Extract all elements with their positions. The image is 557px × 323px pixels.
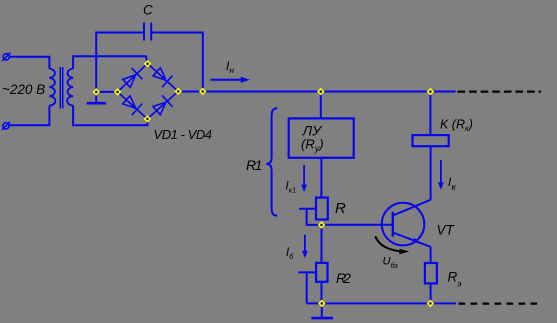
- wire R2 to bottom rail: [321, 282, 323, 304]
- wire left vertical to capacitor line: [96, 33, 144, 92]
- arrow Ube: [375, 236, 409, 254]
- node bridge bottom: [144, 115, 152, 123]
- op-amp block LU (Ry): [289, 118, 354, 157]
- resistor R tap down wire: [307, 209, 321, 225]
- wire emitter to Re: [430, 247, 432, 263]
- node rail at capacitor branch: [199, 88, 207, 96]
- arrow In: [210, 77, 250, 83]
- svg-text:VT: VT: [437, 223, 456, 238]
- svg-text:Iк1: Iк1: [286, 181, 297, 195]
- transformer T1 secondary winding: [67, 69, 73, 106]
- wire bridge left to ground node: [96, 91, 117, 93]
- svg-text:Rэ: Rэ: [448, 270, 462, 289]
- wire rail to relay K: [429, 92, 431, 136]
- wire primary bottom: [9, 106, 49, 126]
- resistor R2 tap wire: [298, 271, 316, 273]
- capacitor C: [144, 23, 151, 41]
- diode VD1 upper-left: [123, 68, 143, 88]
- arrow Ib: [302, 235, 308, 258]
- wire secondary top to bridge: [73, 56, 147, 68]
- transistor VT base bar: [392, 212, 394, 237]
- top rail dashed continuation: [458, 90, 542, 92]
- diode VD4 lower-right: [153, 95, 173, 114]
- transformer T1 primary winding: [49, 69, 55, 106]
- top rail wire: [178, 91, 455, 93]
- svg-text:VD1 - VD4: VD1 - VD4: [154, 127, 212, 142]
- node bridge right: [174, 88, 182, 96]
- diode VD3 lower-left: [123, 96, 143, 115]
- wire secondary bottom to bridge: [73, 106, 147, 126]
- resistor R2: [316, 263, 327, 282]
- arrow Ik: [438, 160, 444, 190]
- bottom rail wire: [307, 302, 456, 304]
- wire rail to LU box: [320, 92, 322, 119]
- wire R to base node and transistor base: [321, 224, 393, 226]
- node rail at relay branch: [427, 88, 435, 96]
- transistor VT collector: [393, 200, 431, 216]
- wire relay to collector: [430, 146, 432, 200]
- wire capacitor to rail: [151, 33, 203, 92]
- wire LU box to R: [320, 158, 322, 198]
- node base junction: [318, 221, 326, 229]
- resistor R2 tap down wire: [306, 272, 308, 303]
- svg-text:Iк: Iк: [448, 175, 456, 193]
- terminal input bottom: [2, 122, 10, 130]
- svg-text:~220 В: ~220 В: [2, 82, 45, 97]
- bottom rail dashed continuation: [459, 303, 543, 305]
- wire Re to bottom rail: [430, 283, 432, 303]
- svg-text:R2: R2: [336, 270, 351, 286]
- bridge diamond wires: [118, 64, 179, 119]
- svg-text:(Rу): (Rу): [301, 137, 324, 154]
- ground 2: [311, 303, 333, 318]
- transistor VT emitter: [393, 233, 431, 247]
- resistor R tap wire: [299, 208, 316, 210]
- svg-text:R1: R1: [246, 157, 262, 173]
- svg-text:Uбэ: Uбэ: [383, 256, 399, 270]
- transformer T1 core: [60, 67, 62, 109]
- diode VD2 upper-right: [153, 68, 173, 87]
- svg-text:Iб: Iб: [286, 247, 294, 261]
- svg-text:C: C: [143, 3, 153, 18]
- node rail at LU branch: [317, 88, 325, 96]
- node bridge left: [114, 88, 122, 96]
- relay coil K (Rk): [413, 135, 449, 146]
- wire node to R2: [321, 225, 323, 263]
- resistor Re: [425, 263, 437, 283]
- node bridge top: [144, 60, 152, 68]
- node bottom rail ground: [318, 300, 326, 308]
- node at ground 1: [92, 88, 100, 96]
- ground 1: [87, 92, 106, 103]
- arrow Ik1: [301, 165, 307, 192]
- transistor VT circle: [382, 203, 425, 246]
- node bottom rail Re: [427, 300, 435, 308]
- brace R1: [266, 108, 277, 216]
- wire primary top: [10, 57, 50, 69]
- resistor R: [316, 198, 328, 220]
- svg-text:K (Rк): K (Rк): [440, 118, 473, 133]
- svg-text:Iн: Iн: [226, 59, 234, 75]
- svg-text:R: R: [335, 200, 346, 217]
- terminal input top: [2, 53, 10, 61]
